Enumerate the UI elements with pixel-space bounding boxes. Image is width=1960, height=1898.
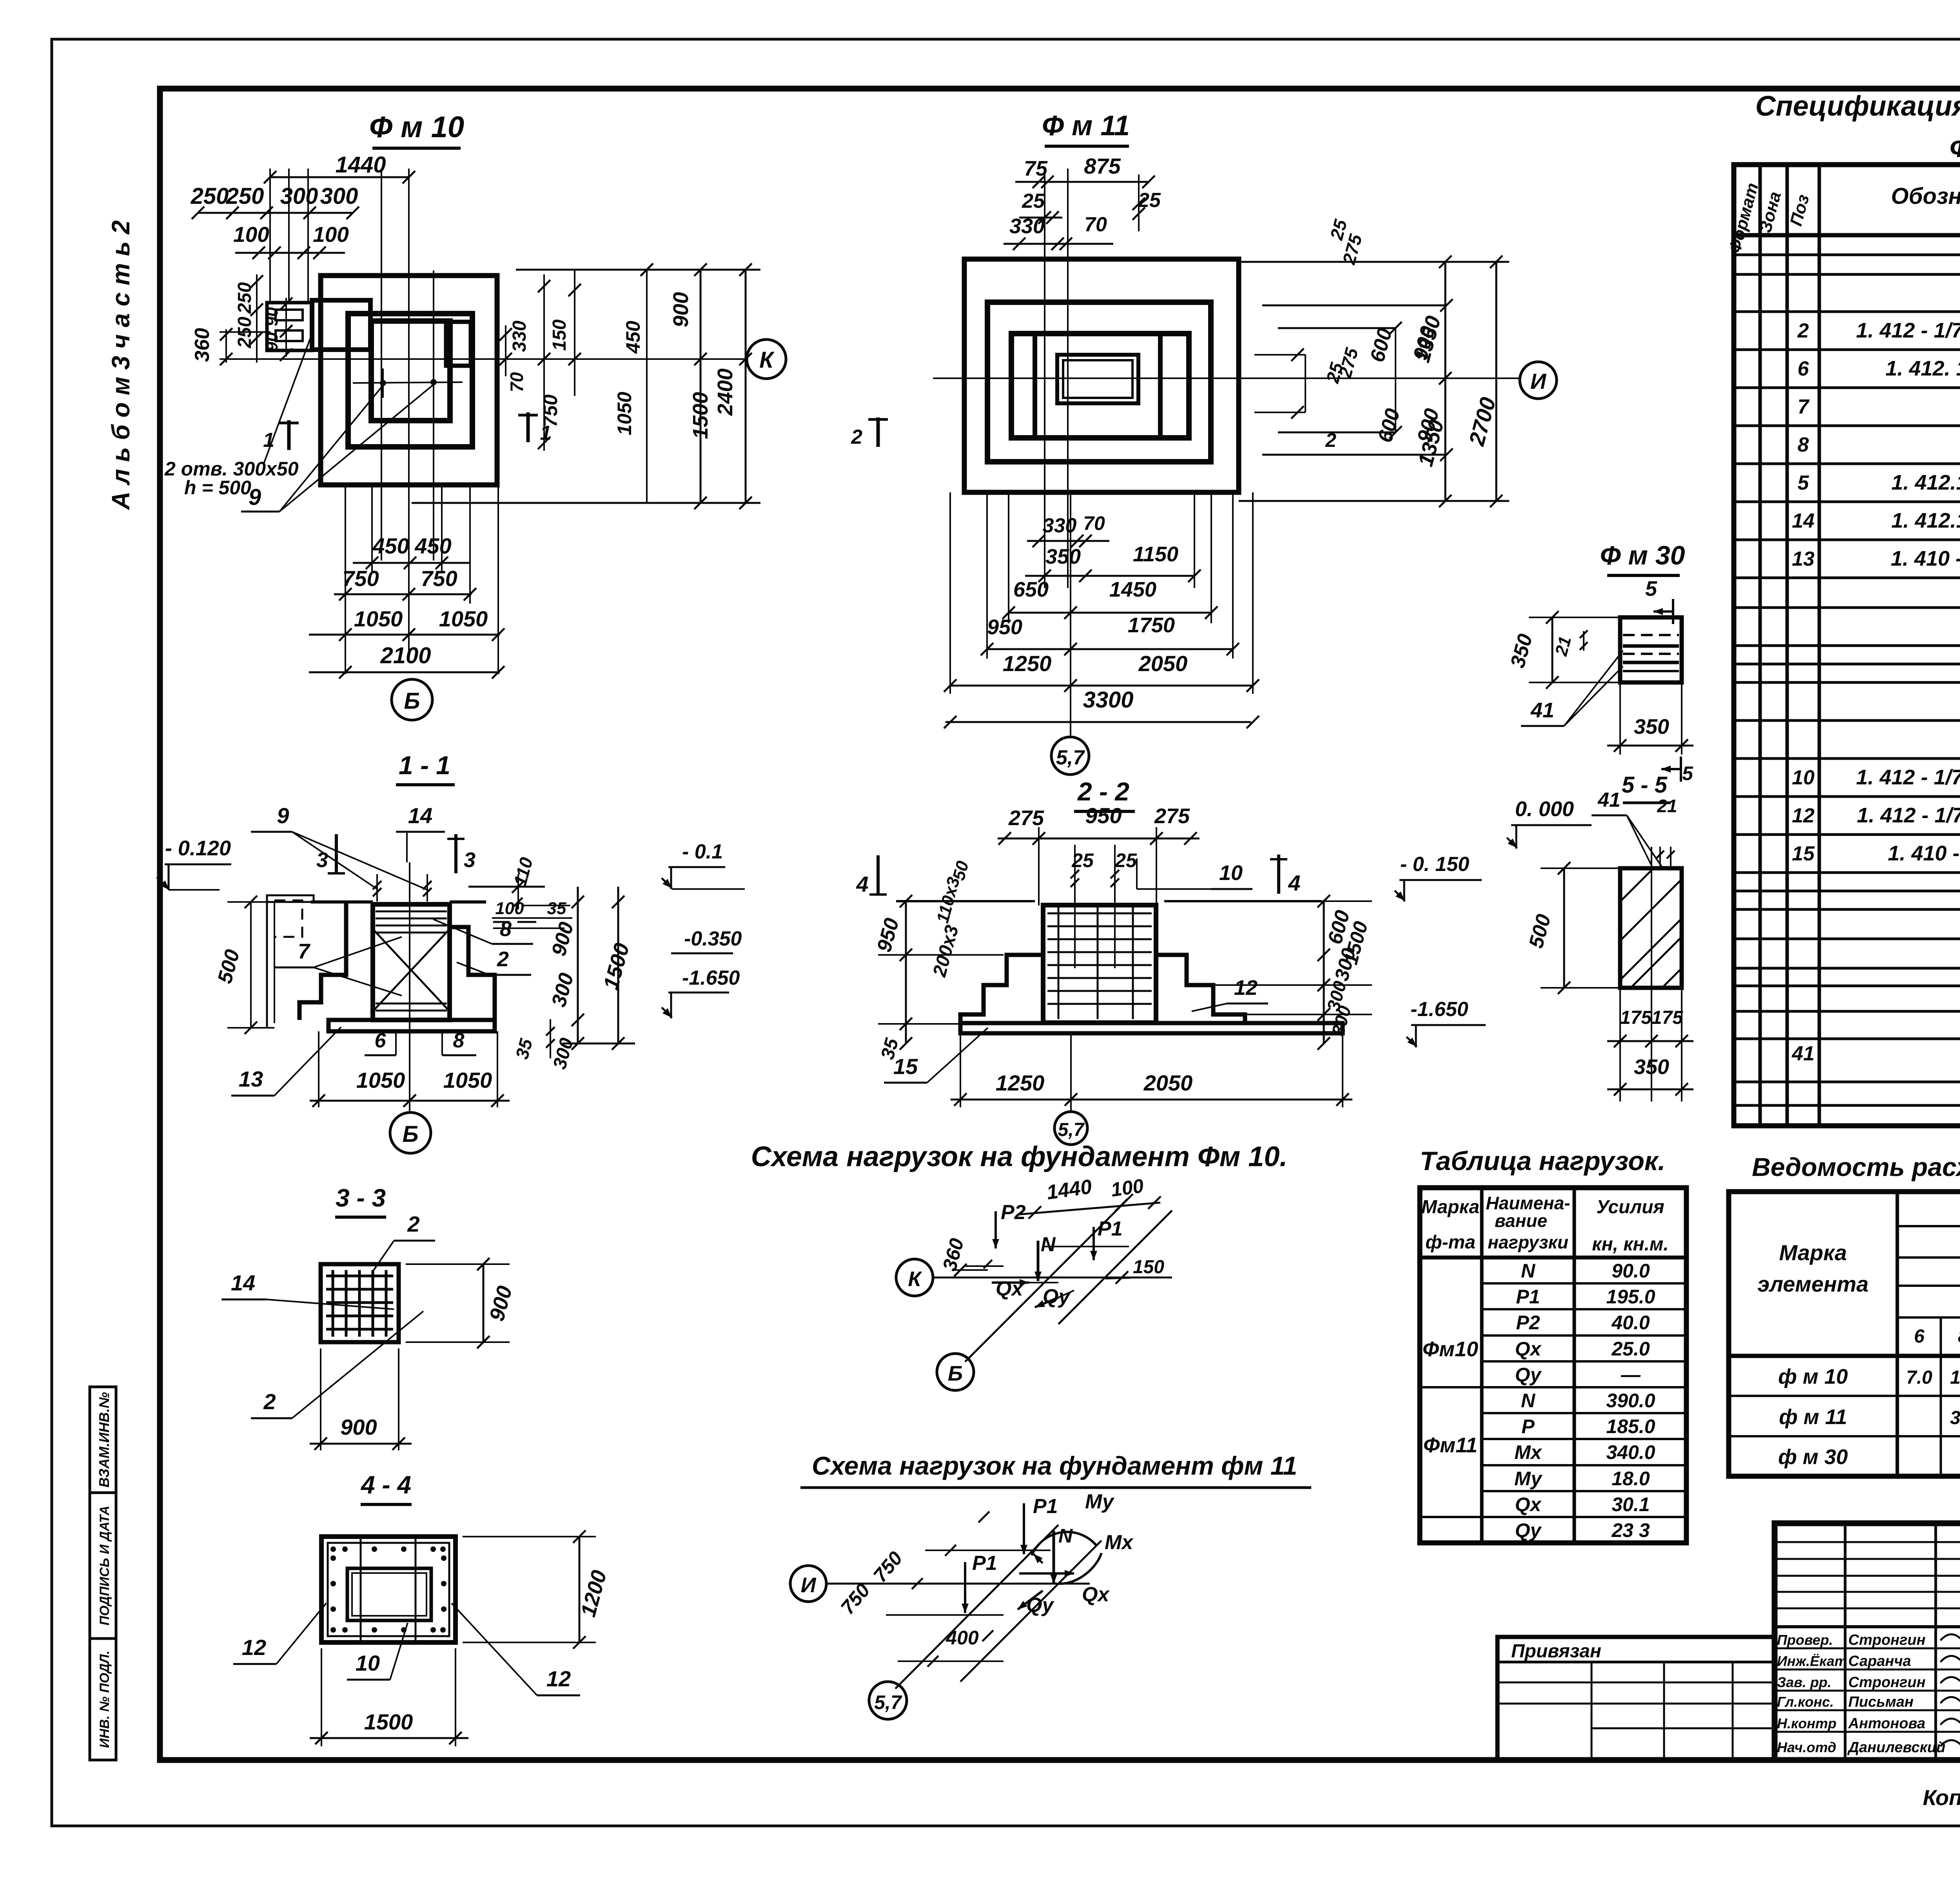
section 1-1 left dim 500 — [213, 896, 274, 1034]
svg-text:Схема нагрузок на фундамент Ф: Схема нагрузок на фундамент Фм 10. — [751, 1141, 1288, 1172]
section 2-2 mark 4 left — [856, 855, 887, 896]
svg-text:P1: P1 — [972, 1552, 997, 1575]
loads table header text — [1421, 1193, 1669, 1255]
scheme FM11 moment Mx — [1058, 1531, 1134, 1584]
svg-text:ф м 11: ф м 11 — [1779, 1405, 1847, 1429]
svg-text:1050: 1050 — [356, 1068, 405, 1092]
svg-text:4 - 4: 4 - 4 — [360, 1471, 411, 1499]
svg-text:1150: 1150 — [1133, 543, 1178, 566]
svg-text:14: 14 — [1792, 510, 1815, 532]
section 1-1 anchor marks — [373, 874, 432, 902]
svg-text:8: 8 — [1798, 434, 1809, 456]
svg-text:1 - 1: 1 - 1 — [399, 751, 450, 780]
svg-text:Привязан: Привязан — [1511, 1641, 1601, 1662]
svg-text:P1: P1 — [1033, 1495, 1058, 1518]
svg-text:450: 450 — [622, 321, 644, 354]
svg-text:150: 150 — [549, 319, 570, 351]
svg-text:330: 330 — [1009, 214, 1045, 238]
FM11 horizontal centerline to axis I — [933, 377, 1521, 379]
svg-text:14: 14 — [408, 803, 432, 828]
scheme FM10 dim 360 — [938, 1236, 992, 1276]
svg-text:Qу: Qу — [1515, 1364, 1542, 1386]
section 1-1 leaders 6 8 bottom — [365, 1029, 476, 1055]
section 1-1 mark 3 left — [316, 834, 345, 873]
svg-text:1. 412.1- 4. 050: 1. 412.1- 4. 050 — [1891, 509, 1960, 532]
FM11 top dim 330 70 — [1004, 213, 1113, 250]
scheme FM10 force P2 — [992, 1201, 1026, 1248]
svg-text:9: 9 — [277, 803, 289, 828]
svg-text:100: 100 — [313, 222, 349, 247]
FM11 plan contour 3 — [1011, 334, 1189, 438]
FM11 bottom dim 650 1450 — [1002, 578, 1218, 619]
svg-text:Qу: Qу — [1026, 1594, 1054, 1617]
scheme FM11 parallel diagonal — [960, 1541, 1102, 1682]
svg-text:Саранча: Саранча — [1848, 1653, 1911, 1669]
FM11 bottom dim 330 70 — [1027, 512, 1109, 547]
section 3-3 leader 14 — [221, 1270, 394, 1309]
section 1-1 mark 3 right — [447, 834, 475, 873]
svg-text:300: 300 — [320, 183, 358, 209]
axis circle 5,7 below section 2-2 — [1054, 1112, 1087, 1145]
svg-text:Марка: Марка — [1421, 1197, 1479, 1218]
FM30 level 0.000 — [1507, 797, 1592, 849]
svg-text:К: К — [759, 347, 775, 373]
svg-text:1250: 1250 — [996, 1071, 1045, 1095]
loads table rows FM10 — [1423, 1260, 1655, 1541]
FM11 right dim cluster 600 900 25 275 — [1254, 217, 1453, 461]
steel table data rows — [1778, 1365, 1960, 1469]
svg-text:h = 500: h = 500 — [184, 477, 251, 499]
section 1-1 right dims — [468, 855, 635, 1071]
svg-text:Спецификация монолитных ф: Спецификация монолитных фундаментов — [1755, 91, 1960, 122]
svg-text:14: 14 — [231, 1270, 255, 1295]
FM10 leader 9 — [241, 385, 434, 512]
svg-text:3: 3 — [316, 848, 328, 872]
svg-text:P1: P1 — [1098, 1218, 1123, 1240]
FM10 title — [369, 111, 464, 148]
svg-text:элемента: элемента — [1757, 1272, 1868, 1296]
svg-text:Таблица нагрузок.: Таблица нагрузок. — [1420, 1146, 1665, 1176]
FM11 bottom extension verticals — [950, 492, 1253, 737]
svg-text:5: 5 — [1798, 472, 1809, 494]
svg-text:2: 2 — [263, 1389, 276, 1414]
section 3-3 leader 2 bottom — [251, 1311, 423, 1418]
section 1-1 foundation outline — [299, 902, 495, 1031]
FM10 long extension verticals — [381, 169, 434, 662]
svg-text:Qх: Qх — [1515, 1493, 1542, 1515]
svg-text:Письман: Письман — [1848, 1694, 1913, 1710]
svg-text:450: 450 — [372, 533, 409, 558]
scheme FM10 dim 150 — [1105, 1257, 1164, 1284]
FM11 title — [1042, 110, 1130, 146]
title block left grid — [1775, 1523, 1960, 1760]
FM11 section mark 2 left — [851, 417, 888, 448]
axis circle 5,7 scheme — [869, 1682, 907, 1719]
svg-text:350: 350 — [1045, 545, 1081, 568]
svg-text:-0.350: -0.350 — [684, 927, 742, 950]
svg-text:340.0: 340.0 — [1606, 1441, 1655, 1463]
spec table rows — [1791, 250, 1960, 1125]
svg-text:275: 275 — [1008, 806, 1044, 830]
svg-text:Ф м 11: Ф м 11 — [1042, 110, 1130, 142]
section 2-2 right dims — [1213, 853, 1486, 1050]
svg-text:0. 000: 0. 000 — [1515, 797, 1574, 821]
FM30 title — [1600, 541, 1685, 575]
scheme FM10 diagonal axis B — [965, 1194, 1133, 1362]
svg-text:Б: Б — [404, 688, 420, 714]
scheme FM11 force P1 top — [1020, 1495, 1058, 1554]
svg-text:875: 875 — [1084, 154, 1121, 178]
left stamp column boxes — [90, 1387, 116, 1760]
svg-text:12: 12 — [1792, 804, 1815, 827]
svg-text:5: 5 — [1682, 762, 1693, 784]
svg-text:1450: 1450 — [1109, 578, 1156, 601]
scheme FM11 dims 750 750 — [837, 1512, 1051, 1619]
svg-text:3300: 3300 — [1083, 687, 1133, 713]
svg-text:ВЗАМ.ИНВ.№: ВЗАМ.ИНВ.№ — [96, 1392, 112, 1487]
section 3-3 dim 900 right — [406, 1258, 517, 1348]
FM11 bottom dim 950 1750 — [981, 613, 1239, 655]
section 4-4 dim 1200 right — [463, 1530, 611, 1649]
svg-text:185.0: 185.0 — [1606, 1415, 1655, 1437]
section 3-3 title — [335, 1184, 386, 1217]
FM10 top dim 250 250 300 300 — [191, 183, 359, 219]
svg-text:—: — — [1621, 1364, 1641, 1386]
svg-text:150: 150 — [1133, 1257, 1164, 1277]
axis circle I — [1520, 362, 1557, 399]
svg-text:Б: Б — [948, 1362, 963, 1385]
svg-text:13: 13 — [1792, 548, 1815, 570]
svg-text:1. 412 - 1/77 - В3 - 060: 1. 412 - 1/77 - В3 - 060 — [1856, 766, 1960, 789]
svg-text:Ф м 10: Ф м 10 — [369, 111, 464, 144]
svg-text:Провер.: Провер. — [1777, 1632, 1833, 1648]
svg-text:2: 2 — [407, 1212, 419, 1236]
scheme FM11 force Qx — [1019, 1570, 1110, 1606]
FM10 column center points — [353, 368, 463, 398]
svg-text:И: И — [1530, 369, 1547, 394]
FM10 plan inner contour — [371, 321, 450, 421]
svg-text:350: 350 — [1634, 1055, 1669, 1079]
svg-text:400: 400 — [946, 1627, 979, 1649]
svg-text:70: 70 — [506, 372, 527, 392]
svg-text:1050: 1050 — [613, 392, 635, 435]
FM10 section mark 1 right — [518, 412, 551, 445]
svg-text:6: 6 — [1914, 1326, 1925, 1347]
steel table grid — [1729, 1192, 1960, 1476]
svg-text:Qх: Qх — [1515, 1338, 1542, 1360]
svg-text:2: 2 — [1325, 429, 1336, 451]
svg-text:N: N — [1041, 1233, 1056, 1256]
FM10 bottom dim 1050 1050 — [309, 606, 505, 641]
svg-text:ФМ 10; ФМ 11; ФМ 30: ФМ 10; ФМ 11; ФМ 30 — [1949, 133, 1960, 163]
svg-text:70: 70 — [1084, 213, 1107, 236]
svg-text:Стронгин: Стронгин — [1848, 1674, 1926, 1691]
svg-text:1. 412 - 1/77 - В3 - 100: 1. 412 - 1/77 - В3 - 100 — [1856, 319, 1960, 342]
FM10 plan middle contour — [348, 314, 472, 447]
title block roles and names — [1777, 1632, 1945, 1756]
svg-text:7: 7 — [298, 940, 311, 963]
scheme FM10 force Qy — [1035, 1285, 1074, 1308]
svg-text:Qх: Qх — [996, 1277, 1024, 1300]
svg-text:Обозначение: Обозначение — [1891, 183, 1960, 209]
svg-text:900: 900 — [340, 1415, 377, 1439]
scheme FM11 axis line I — [826, 1583, 1090, 1585]
svg-text:1. 412. 1- 4. 0 80: 1. 412. 1- 4. 0 80 — [1886, 357, 1960, 380]
svg-text:40.0: 40.0 — [1611, 1312, 1650, 1334]
svg-text:6: 6 — [375, 1029, 387, 1052]
FM11 plan contour 2 — [987, 302, 1211, 462]
section 3-3 leader 2 top — [372, 1212, 435, 1272]
section 2-2 leader 12 — [1192, 976, 1268, 1011]
scheme FM11 title — [800, 1451, 1311, 1488]
section 4-4 title — [360, 1471, 412, 1504]
title block signatures — [1940, 1631, 1960, 1747]
svg-text:18.0: 18.0 — [1612, 1468, 1650, 1490]
svg-text:-1.650: -1.650 — [1410, 998, 1468, 1021]
svg-text:вание: вание — [1495, 1210, 1547, 1231]
FM11 bottom dim 3300 — [944, 687, 1259, 728]
svg-text:275: 275 — [1154, 804, 1190, 828]
svg-text:23 3: 23 3 — [1611, 1519, 1650, 1541]
section 2-2 pier internals — [1047, 907, 1152, 1019]
FM30 upper dims 350 21 — [1506, 611, 1620, 689]
svg-text:1. 410 - 3.1 - 12: 1. 410 - 3.1 - 12 — [1891, 547, 1960, 570]
svg-text:А л ь б о м 3 ч а с т ь 2: А л ь б о м 3 ч а с т ь 2 — [107, 220, 135, 510]
svg-text:300: 300 — [280, 183, 318, 209]
section 2-2 leader 10 — [1137, 858, 1252, 889]
axis circle I scheme — [790, 1566, 826, 1602]
svg-text:Му: Му — [1085, 1490, 1115, 1513]
svg-text:Ведомость расхода стали: Ведомость расхода стали на элемент, кг — [1752, 1152, 1960, 1181]
svg-text:Р1: Р1 — [1516, 1286, 1540, 1308]
svg-text:90: 90 — [262, 332, 281, 351]
section 1-1 leaders 8 2 — [433, 917, 533, 975]
FM10 bottom dim 750 750 — [334, 566, 476, 601]
svg-text:1440: 1440 — [335, 152, 386, 178]
svg-text:Б: Б — [402, 1121, 418, 1147]
section 3-3 dim 900 bottom — [310, 1348, 412, 1450]
svg-text:900: 900 — [669, 292, 693, 327]
scheme FM11 dim 400 — [898, 1615, 1004, 1667]
svg-text:195.0: 195.0 — [1606, 1286, 1655, 1308]
axis circle B scheme — [937, 1354, 974, 1390]
svg-text:750: 750 — [421, 566, 457, 591]
svg-text:21: 21 — [1657, 796, 1677, 816]
svg-text:6: 6 — [1798, 357, 1809, 380]
FM11 bottom dim 1250 2050 — [944, 651, 1259, 692]
bottom notes — [1923, 1785, 1960, 1812]
svg-text:Нач.отд: Нач.отд — [1777, 1739, 1836, 1755]
svg-text:4: 4 — [856, 872, 868, 896]
svg-text:750: 750 — [539, 394, 561, 427]
svg-text:- 0. 150: - 0. 150 — [1400, 853, 1469, 876]
section 2-2 ground lines — [896, 900, 1321, 902]
svg-text:2: 2 — [851, 426, 862, 448]
scheme FM11 moment My arc — [1032, 1490, 1115, 1563]
svg-text:1250: 1250 — [1003, 651, 1052, 676]
svg-text:15: 15 — [1792, 842, 1815, 865]
FM11 top dim 75 875 — [1015, 154, 1155, 188]
svg-text:250: 250 — [191, 183, 229, 209]
spec table grid — [1734, 165, 1960, 1126]
FM30 bottom dims 175 175 350 — [1607, 847, 1693, 1101]
svg-text:1500: 1500 — [689, 392, 712, 439]
FM30 upper detail — [1620, 617, 1682, 682]
svg-text:70: 70 — [1083, 512, 1105, 534]
svg-text:Ф м 30: Ф м 30 — [1600, 541, 1685, 570]
svg-text:8: 8 — [453, 1029, 465, 1052]
section 2-2 left dims — [873, 859, 1004, 1062]
section 1-1 bottom dim 1050 1050 — [310, 1031, 510, 1107]
svg-text:Фм11: Фм11 — [1423, 1433, 1477, 1457]
svg-text:390.0: 390.0 — [1606, 1390, 1655, 1412]
svg-text:1. 410 - 3. 1 - 12: 1. 410 - 3. 1 - 12 — [1888, 842, 1960, 865]
svg-text:ф-та: ф-та — [1425, 1232, 1475, 1253]
FM10 bottom dim 2100 — [309, 643, 505, 679]
FM10 top dim 100 100 — [233, 222, 349, 259]
section 2-2 top dim 275 950 275 — [998, 803, 1200, 905]
svg-text:25.0: 25.0 — [1611, 1338, 1650, 1360]
FM30 dim 350 below upper detail — [1607, 682, 1693, 755]
scheme FM10 force N — [1034, 1233, 1056, 1281]
FM10 left dims 360 250 250 90 90 — [191, 274, 292, 365]
svg-text:Антонова: Антонова — [1848, 1715, 1926, 1732]
FM30 lower detail hatched — [1620, 868, 1682, 988]
svg-text:Qх: Qх — [1082, 1583, 1110, 1606]
svg-text:10: 10 — [1219, 861, 1243, 885]
scheme FM10 slanted dim 1440 100 — [1019, 1175, 1161, 1219]
svg-text:Qу: Qу — [1515, 1519, 1542, 1541]
section 1-1 level -0.120 — [157, 836, 231, 890]
svg-text:Стронгин: Стронгин — [1848, 1632, 1926, 1648]
scheme FM10 short line — [964, 1247, 1129, 1266]
FM10 right dim stack — [412, 263, 760, 509]
svg-text:Усилия: Усилия — [1596, 1197, 1664, 1218]
svg-text:12: 12 — [242, 1635, 266, 1660]
svg-text:-1.650: -1.650 — [682, 967, 740, 989]
svg-text:90.0: 90.0 — [1612, 1260, 1650, 1282]
section 4-4 leaders 12 10 12 — [233, 1603, 580, 1695]
svg-text:25: 25 — [1022, 190, 1045, 212]
axis circle K scheme — [896, 1259, 933, 1296]
svg-text:175: 175 — [1620, 1007, 1652, 1028]
scheme FM10 parallel edge — [1058, 1210, 1172, 1324]
section 1-1 leader 14 — [396, 803, 445, 862]
FM30 section 5-5 label — [1622, 757, 1693, 803]
svg-text:7.0: 7.0 — [1906, 1367, 1933, 1388]
svg-text:250: 250 — [226, 183, 264, 209]
svg-text:нагрузки: нагрузки — [1488, 1232, 1568, 1252]
section 1-1 centerline — [409, 862, 410, 1112]
svg-text:175: 175 — [1651, 1007, 1683, 1028]
scheme FM10 force Qx — [992, 1277, 1058, 1300]
svg-text:1: 1 — [263, 429, 274, 452]
scheme FM11 force Qy — [1018, 1591, 1054, 1617]
FM10 top dim 1440 — [264, 152, 415, 303]
scheme FM10 force P1 — [1090, 1218, 1123, 1260]
svg-text:5,7: 5,7 — [1058, 1120, 1085, 1140]
svg-text:12: 12 — [1234, 976, 1258, 1000]
axis circle K — [747, 339, 786, 379]
svg-text:Зав. рр.: Зав. рр. — [1777, 1674, 1831, 1690]
scheme FM10 axis line K — [932, 1277, 1172, 1279]
FM10 horizontal centerline to axis K — [220, 358, 745, 360]
svg-text:15: 15 — [893, 1054, 918, 1079]
svg-text:1050: 1050 — [443, 1068, 492, 1092]
svg-text:ПОДПИСЬ И ДАТА: ПОДПИСЬ И ДАТА — [97, 1506, 112, 1626]
section 1-1 leader 13 — [231, 1027, 341, 1096]
svg-text:И: И — [801, 1573, 817, 1597]
svg-text:350: 350 — [1634, 715, 1669, 739]
svg-text:950: 950 — [1085, 803, 1122, 828]
svg-text:41: 41 — [1530, 699, 1554, 722]
FM30 leader 41 upper — [1521, 651, 1623, 726]
svg-text:41: 41 — [1791, 1042, 1815, 1065]
axis circle B bottom of FM10 — [392, 679, 432, 720]
privyazan box — [1497, 1637, 1775, 1760]
steel table title — [1752, 1152, 1960, 1181]
svg-text:Инж.Ёкат: Инж.Ёкат — [1777, 1653, 1847, 1669]
FM30 mark 5 top — [1645, 577, 1673, 624]
svg-text:2 - 2: 2 - 2 — [1077, 777, 1129, 806]
section 1-1 pier internals — [373, 911, 450, 1011]
svg-text:N: N — [1521, 1260, 1535, 1282]
scheme FM11 force P1 left — [962, 1552, 997, 1613]
svg-text:330: 330 — [1043, 514, 1077, 537]
svg-text:Н.контр: Н.контр — [1777, 1715, 1837, 1731]
svg-text:5 - 5: 5 - 5 — [1622, 772, 1668, 798]
section 2-2 bottom dim 1250 2050 — [951, 1033, 1352, 1112]
svg-text:Мх: Мх — [1105, 1531, 1134, 1554]
FM11 bolt verticals — [1045, 169, 1068, 588]
svg-text:N: N — [1058, 1525, 1073, 1547]
svg-text:ИНВ. № ПОДЛ.: ИНВ. № ПОДЛ. — [97, 1651, 112, 1748]
section 2-2 mark 4 right — [1270, 855, 1301, 895]
title block outer — [1775, 1523, 1960, 1760]
section 4-4 dim 1500 bottom — [310, 1648, 468, 1746]
svg-text:3: 3 — [464, 848, 475, 872]
svg-text:5,7: 5,7 — [1056, 746, 1085, 769]
svg-text:2050: 2050 — [1138, 651, 1188, 676]
svg-text:5,7: 5,7 — [874, 1691, 902, 1713]
FM11 right dim 1350 1350 2700 — [1239, 256, 1509, 507]
svg-text:1500: 1500 — [364, 1709, 413, 1734]
loads table grid — [1420, 1188, 1686, 1543]
svg-text:1750: 1750 — [1128, 613, 1175, 637]
svg-text:- 0.1: - 0.1 — [682, 840, 723, 863]
album label — [107, 220, 135, 510]
FM30 leader 41 lower — [1592, 789, 1677, 868]
svg-text:Гл.конс.: Гл.конс. — [1777, 1694, 1834, 1710]
spec table title — [1755, 91, 1960, 163]
svg-text:1050: 1050 — [354, 606, 403, 631]
svg-text:100: 100 — [1109, 1175, 1145, 1201]
FM10 section mark 1 left — [263, 420, 299, 452]
scheme FM10 title — [751, 1141, 1288, 1172]
svg-text:1. 412 - 1/77 - В.3 -110: 1. 412 - 1/77 - В.3 -110 — [1857, 804, 1960, 827]
FM10 plan outer square — [321, 276, 497, 485]
FM10 bottom dim 450 450 — [353, 533, 470, 569]
svg-text:13: 13 — [239, 1067, 263, 1091]
svg-text:950: 950 — [987, 615, 1022, 639]
scheme FM11 diagonal axis 57 — [895, 1525, 1058, 1689]
FM30 dim 500 — [1524, 862, 1620, 994]
svg-text:10: 10 — [356, 1651, 380, 1675]
svg-text:4: 4 — [1288, 871, 1300, 895]
scheme FM11 force N — [1050, 1525, 1073, 1584]
svg-text:1.6: 1.6 — [1950, 1367, 1960, 1388]
svg-text:25: 25 — [1114, 849, 1137, 871]
